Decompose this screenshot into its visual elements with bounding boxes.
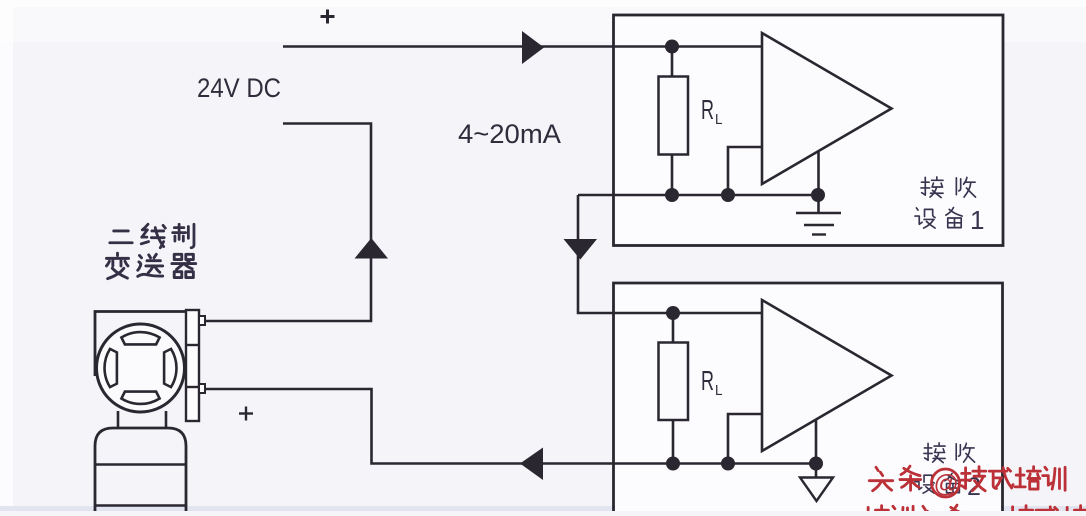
box2 interior fill [615,285,1001,512]
junction node: RL1 bottom [665,188,679,202]
svg-text:R: R [701,365,714,396]
junction node: ground tap 2 [809,457,823,471]
svg-text:24V DC: 24V DC [197,73,281,103]
left white edge [0,0,13,511]
wire: 24V DC negative lead down [205,124,371,322]
svg-text:1: 1 [970,205,984,235]
wire: inverting input stub 1 [728,147,762,195]
current direction arrow left [520,448,543,481]
current direction arrow up [355,238,389,259]
bottom gray strip [0,506,1086,511]
current direction arrow down [564,239,598,260]
junction node: RL2 top [666,306,680,320]
label 二线制 [110,224,194,248]
svg-text:R: R [701,94,714,125]
label 接收 (device2) [924,443,975,463]
watermark 头条@技成培训 [869,466,1065,491]
wire: resistor branch 2 [672,313,675,464]
junction node: inverting stub 2 [721,457,735,471]
top white edge [0,0,1086,7]
transmitter neck [118,411,166,429]
receiving device 2 box [614,283,1003,511]
head inner segments [105,332,177,404]
wire: transmitter return lead [205,389,816,464]
svg-text:@: @ [934,470,959,498]
soft white top band [0,0,1086,42]
wire: bottom rail 1 [578,194,818,197]
wire: resistor branch 1 [671,47,674,196]
transmitter terminal block [186,310,199,421]
transmitter housing box [95,312,186,377]
box1 interior fill [615,17,1002,244]
label 接收 (device1) [921,177,976,198]
junction node: RL2 bottom [666,457,680,471]
wire: output down stub 2 [815,420,818,478]
watermark second row partial [863,505,1086,516]
plus sign at 24V DC positive terminal [321,10,335,24]
resistor RL1 [659,77,689,155]
ground symbol earth [796,213,841,235]
wire: output down stub 1 [817,151,820,213]
op-amp U2 [762,300,892,451]
plus sign at transmitter [239,407,253,421]
current direction arrow right [522,31,544,64]
svg-text:4~20mA: 4~20mA [458,119,561,149]
label 设备1 [915,207,962,228]
svg-text:L: L [715,111,723,128]
label 变送器 [106,253,195,279]
op-amp U1 [762,33,892,184]
resistor RL2 [659,343,689,421]
ground symbol triangle [800,478,833,502]
wire: top supply line [283,45,762,48]
transmitter round head [97,324,185,412]
wire: link box1 to box2 [578,195,762,313]
junction node: RL1 top [665,40,679,54]
receiving device 1 box [614,15,1004,246]
wire: inverting input stub 2 [728,414,762,464]
label 设备2 partial [915,473,960,493]
junction node: ground tap 1 [811,188,825,202]
transmitter body bottle [95,428,186,511]
junction node: inverting stub 1 [721,188,735,202]
svg-text:L: L [715,382,723,399]
watermark circled @ [932,469,960,497]
